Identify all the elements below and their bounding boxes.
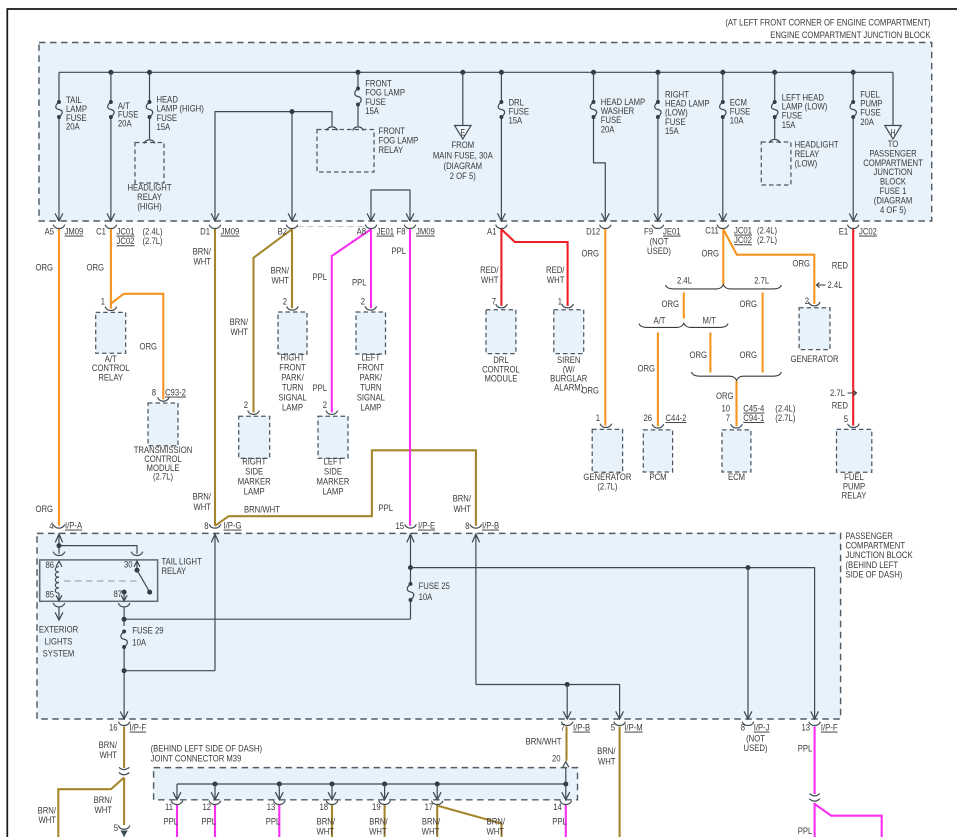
svg-text:2 OF 5): 2 OF 5) [450, 170, 476, 181]
svg-text:B2: B2 [278, 226, 288, 237]
svg-text:20A: 20A [118, 118, 132, 129]
svg-text:15A: 15A [782, 119, 796, 130]
svg-text:JM09: JM09 [221, 226, 240, 237]
svg-text:10A: 10A [132, 637, 146, 648]
svg-text:ORG: ORG [139, 341, 157, 352]
svg-text:7: 7 [492, 296, 496, 307]
svg-text:FUSE 25: FUSE 25 [419, 580, 450, 591]
svg-text:5: 5 [611, 722, 615, 733]
svg-text:4: 4 [49, 520, 53, 531]
svg-text:C44-2: C44-2 [666, 412, 687, 423]
svg-text:(DIAGRAM: (DIAGRAM [444, 160, 482, 171]
svg-text:20A: 20A [860, 116, 874, 127]
svg-text:A5: A5 [45, 226, 55, 237]
svg-text:H: H [890, 128, 895, 138]
svg-text:PCM: PCM [649, 471, 666, 482]
svg-text:ORG: ORG [689, 349, 707, 360]
svg-text:85: 85 [46, 589, 55, 600]
svg-text:(2.7L): (2.7L) [597, 481, 617, 492]
svg-text:WHT: WHT [547, 274, 565, 285]
svg-text:BRN/WHT: BRN/WHT [244, 504, 281, 515]
svg-text:C93-2: C93-2 [165, 387, 186, 398]
svg-text:PPL: PPL [798, 825, 813, 836]
svg-text:I/P-G: I/P-G [224, 520, 242, 531]
svg-text:PPL: PPL [312, 382, 327, 393]
svg-text:JC02: JC02 [117, 235, 135, 246]
svg-text:ENGINE COMPARTMENT JUNCTION BL: ENGINE COMPARTMENT JUNCTION BLOCK [770, 29, 931, 40]
svg-text:WHT: WHT [193, 501, 211, 512]
svg-text:12: 12 [202, 801, 211, 812]
svg-text:8: 8 [741, 722, 745, 733]
svg-text:JM09: JM09 [416, 226, 435, 237]
svg-text:WHT: WHT [99, 749, 117, 760]
svg-text:87: 87 [113, 588, 122, 599]
svg-text:(2.7L): (2.7L) [757, 234, 777, 245]
svg-text:E: E [460, 128, 465, 138]
svg-text:1: 1 [101, 296, 105, 307]
svg-text:15A: 15A [157, 121, 171, 132]
svg-text:FUSE 29: FUSE 29 [132, 625, 163, 636]
svg-text:(HIGH): (HIGH) [137, 201, 161, 212]
svg-text:17: 17 [425, 801, 434, 812]
svg-text:8: 8 [465, 520, 469, 531]
svg-text:5: 5 [114, 822, 118, 833]
svg-text:RED: RED [832, 400, 848, 411]
svg-text:7: 7 [726, 412, 730, 423]
svg-text:I/P-J: I/P-J [754, 722, 770, 733]
svg-text:4 OF 5): 4 OF 5) [880, 204, 906, 215]
svg-text:E1: E1 [839, 226, 849, 237]
svg-text:A8: A8 [357, 226, 367, 237]
svg-text:15A: 15A [509, 115, 523, 126]
svg-text:PPL: PPL [552, 816, 567, 827]
svg-text:WHT: WHT [453, 503, 471, 514]
svg-text:18: 18 [319, 801, 328, 812]
svg-text:15: 15 [395, 520, 404, 531]
svg-text:13: 13 [267, 801, 276, 812]
svg-text:1: 1 [596, 412, 600, 423]
svg-text:WHT: WHT [369, 826, 387, 837]
svg-text:BRN/: BRN/ [597, 745, 616, 756]
svg-text:F8: F8 [397, 226, 406, 237]
svg-text:LAMP: LAMP [244, 486, 265, 497]
svg-text:JOINT CONNECTOR M39: JOINT CONNECTOR M39 [151, 753, 242, 764]
svg-text:A/T: A/T [654, 315, 667, 326]
svg-text:15A: 15A [665, 125, 679, 136]
svg-text:C94-1: C94-1 [743, 412, 764, 423]
svg-text:RELAY: RELAY [379, 144, 404, 155]
svg-text:ORG: ORG [35, 503, 53, 514]
svg-text:RELAY: RELAY [162, 565, 187, 576]
svg-text:(2.7L): (2.7L) [143, 235, 163, 246]
svg-text:2.4L: 2.4L [677, 275, 692, 286]
svg-text:PPL: PPL [352, 277, 367, 288]
svg-text:20A: 20A [601, 124, 615, 135]
svg-text:ORG: ORG [739, 298, 757, 309]
svg-text:WHT: WHT [230, 326, 248, 337]
svg-text:2.7L: 2.7L [754, 275, 769, 286]
svg-text:PPL: PPL [391, 245, 406, 256]
svg-text:ECM: ECM [728, 471, 745, 482]
svg-text:15A: 15A [365, 105, 379, 116]
svg-text:I/P-M: I/P-M [624, 722, 642, 733]
svg-text:2.7L: 2.7L [830, 387, 845, 398]
svg-text:7: 7 [561, 722, 565, 733]
svg-text:ORG: ORG [661, 298, 679, 309]
svg-text:30: 30 [124, 559, 133, 570]
svg-text:WHT: WHT [271, 275, 289, 286]
svg-text:EXTERIOR: EXTERIOR [39, 624, 78, 635]
svg-text:19: 19 [372, 801, 381, 812]
svg-text:GENERATOR: GENERATOR [790, 353, 838, 364]
svg-text:ORG: ORG [792, 258, 810, 269]
svg-text:8: 8 [204, 520, 208, 531]
svg-text:20: 20 [552, 753, 561, 764]
svg-text:WHT: WHT [38, 814, 56, 825]
svg-text:1: 1 [558, 296, 562, 307]
svg-text:MODULE: MODULE [484, 373, 517, 384]
svg-text:11: 11 [165, 801, 173, 812]
svg-text:2: 2 [361, 296, 365, 307]
svg-text:I/P-B: I/P-B [482, 520, 499, 531]
svg-text:C1: C1 [96, 226, 106, 237]
svg-text:JC02: JC02 [734, 234, 752, 245]
svg-text:ORG: ORG [739, 349, 757, 360]
svg-text:LAMP: LAMP [282, 402, 303, 413]
svg-text:ALARM): ALARM) [554, 382, 583, 393]
svg-text:BRN/: BRN/ [193, 491, 212, 502]
svg-text:MAIN FUSE, 30A: MAIN FUSE, 30A [433, 150, 493, 161]
svg-text:WHT: WHT [481, 274, 499, 285]
svg-text:BRN/: BRN/ [453, 493, 472, 504]
svg-text:20A: 20A [66, 121, 80, 132]
svg-text:C11: C11 [705, 225, 719, 236]
svg-text:ORG: ORG [701, 248, 719, 259]
svg-text:RED: RED [832, 260, 848, 271]
svg-text:2: 2 [283, 296, 287, 307]
svg-text:(2.7L): (2.7L) [153, 471, 173, 482]
svg-text:I/P-F: I/P-F [821, 722, 838, 733]
svg-text:(LOW): (LOW) [795, 158, 818, 169]
svg-text:RELAY: RELAY [842, 490, 867, 501]
svg-text:8: 8 [152, 387, 156, 398]
svg-text:WHT: WHT [94, 804, 112, 815]
svg-text:I/P-B: I/P-B [573, 722, 590, 733]
svg-text:ORG: ORG [35, 262, 53, 273]
svg-text:(AT LEFT FRONT CORNER OF ENGIN: (AT LEFT FRONT CORNER OF ENGINE COMPARTM… [725, 17, 930, 28]
svg-text:D12: D12 [586, 226, 600, 237]
svg-text:2: 2 [244, 399, 248, 410]
svg-text:SYSTEM: SYSTEM [43, 648, 75, 659]
svg-text:USED): USED) [647, 245, 671, 256]
svg-text:LIGHTS: LIGHTS [45, 636, 73, 647]
svg-text:LAMP: LAMP [360, 402, 381, 413]
svg-text:SIDE OF DASH): SIDE OF DASH) [846, 569, 903, 580]
svg-text:5: 5 [844, 413, 848, 424]
svg-text:(2.7L): (2.7L) [775, 412, 795, 423]
svg-text:D1: D1 [200, 226, 210, 237]
svg-text:26: 26 [643, 412, 652, 423]
svg-text:WHT: WHT [193, 256, 211, 267]
svg-text:14: 14 [553, 801, 562, 812]
svg-text:2: 2 [323, 399, 327, 410]
svg-text:I/P-E: I/P-E [418, 520, 435, 531]
svg-text:LAMP: LAMP [323, 486, 344, 497]
svg-text:I/P-F: I/P-F [130, 722, 147, 733]
svg-text:10A: 10A [419, 591, 433, 602]
svg-text:2.4L: 2.4L [828, 279, 843, 290]
svg-text:86: 86 [46, 559, 55, 570]
svg-text:PPL: PPL [798, 743, 813, 754]
svg-text:ORG: ORG [581, 385, 599, 396]
svg-text:FROM: FROM [451, 139, 474, 150]
svg-text:RELAY: RELAY [98, 372, 123, 383]
svg-text:ORG: ORG [716, 390, 734, 401]
svg-text:BRN/WHT: BRN/WHT [526, 736, 563, 747]
svg-text:PPL: PPL [163, 816, 178, 827]
svg-text:JE01: JE01 [377, 226, 395, 237]
svg-text:PPL: PPL [266, 816, 281, 827]
svg-text:WHT: WHT [598, 756, 616, 767]
svg-text:2: 2 [805, 295, 809, 306]
svg-text:WHT: WHT [422, 826, 440, 837]
svg-text:ORG: ORG [637, 363, 655, 374]
svg-text:WHT: WHT [316, 826, 334, 837]
svg-text:13: 13 [801, 722, 810, 733]
svg-text:M/T: M/T [703, 315, 717, 326]
svg-text:PPL: PPL [312, 271, 327, 282]
svg-text:A1: A1 [487, 226, 497, 237]
svg-text:WHT: WHT [486, 826, 504, 837]
svg-text:JM09: JM09 [65, 226, 84, 237]
svg-text:10A: 10A [730, 115, 744, 126]
svg-text:PPL: PPL [201, 816, 216, 827]
svg-text:I/P-A: I/P-A [65, 520, 82, 531]
svg-text:JC02: JC02 [859, 226, 877, 237]
svg-text:USED): USED) [744, 742, 768, 753]
svg-text:ORG: ORG [581, 248, 599, 259]
svg-text:ORG: ORG [86, 262, 104, 273]
svg-text:16: 16 [109, 722, 118, 733]
svg-text:PPL: PPL [378, 502, 393, 513]
